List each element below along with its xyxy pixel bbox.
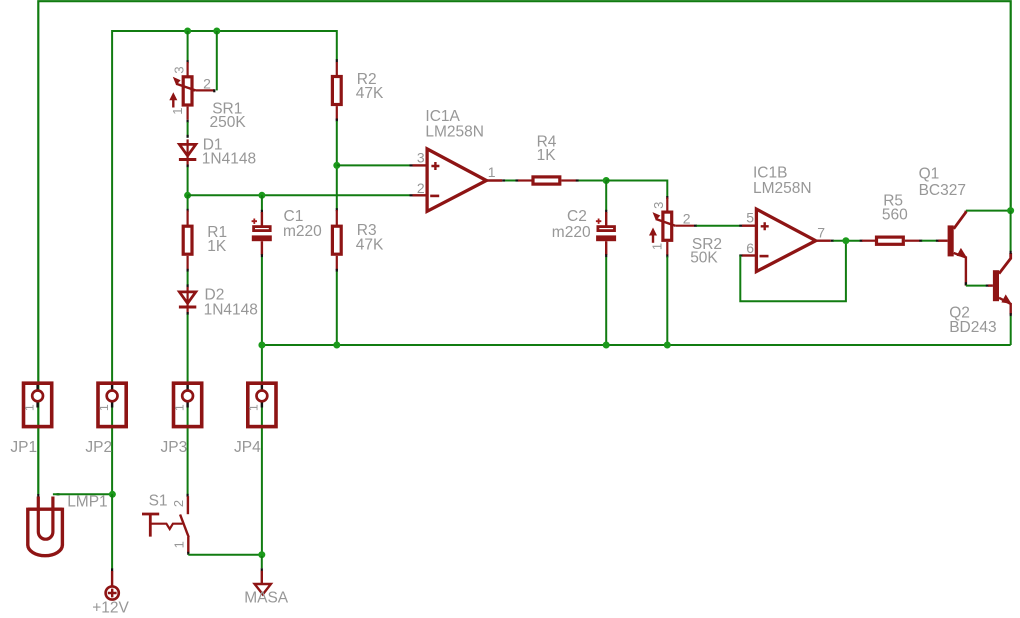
- Q2 base tick: [986, 285, 989, 287]
- wire S1 to MASA node: [188, 554, 261, 556]
- svg-text:560: 560: [882, 207, 908, 224]
- capacitor C1: [261, 212, 263, 226]
- Q2 collector tick: [1009, 251, 1011, 254]
- svg-text:1: 1: [172, 404, 186, 411]
- junction MASA node: [258, 551, 265, 558]
- junction on rail at SR1 pin2: [213, 28, 220, 35]
- svg-text:BD243: BD243: [949, 319, 996, 336]
- Q2 emitter tick: [1010, 313, 1012, 316]
- wire R5 to Q1 base: [922, 240, 937, 242]
- connector JP3: [186, 383, 188, 391]
- wire +V to Q2 collector: [1010, 211, 1012, 252]
- supply +12V symbol: [111, 571, 113, 587]
- IC1B pin6 tick: [739, 254, 742, 256]
- svg-text:1N4148: 1N4148: [204, 301, 258, 318]
- wire R1 to D2: [187, 272, 189, 286]
- svg-text:6: 6: [746, 240, 754, 256]
- IC1B pin5 tick: [739, 225, 742, 227]
- svg-text:LM258N: LM258N: [753, 180, 812, 197]
- transistor Q2: [988, 284, 993, 286]
- LMP1 right pin tick: [57, 493, 60, 495]
- svg-text:m220: m220: [283, 223, 322, 240]
- junction node at C1: [258, 192, 265, 199]
- MASA pin tick: [261, 568, 263, 571]
- junction bus at R3: [333, 342, 340, 349]
- +12V pin tick: [111, 568, 113, 571]
- svg-text:MASA: MASA: [244, 589, 289, 606]
- wire R2 to divider junction and R3: [336, 121, 338, 209]
- wire divider to op-amp pin3: [337, 164, 410, 166]
- svg-text:50K: 50K: [690, 249, 718, 266]
- svg-text:1N4148: 1N4148: [202, 151, 256, 168]
- resistor R1: [187, 211, 189, 226]
- svg-text:m220: m220: [552, 224, 591, 241]
- R2 bottom tick: [336, 119, 338, 122]
- wire SR1 pin2 up to rail: [216, 31, 218, 90]
- D1 top tick: [187, 135, 189, 138]
- svg-text:LM258N: LM258N: [425, 124, 484, 141]
- svg-text:JP1: JP1: [10, 439, 37, 456]
- svg-text:1K: 1K: [537, 147, 557, 164]
- transistor Q1: [938, 239, 947, 241]
- wire +V border net (left, top, right): [38, 1, 1010, 494]
- wire C2 to bus: [605, 257, 607, 345]
- svg-text:1: 1: [97, 404, 111, 411]
- svg-text:JP4: JP4: [234, 439, 261, 456]
- svg-text:2: 2: [683, 211, 691, 227]
- wire Q1 collector to +V: [966, 210, 1011, 212]
- wire R4 to node B: [579, 180, 607, 182]
- wire rail down to +12V: [111, 494, 113, 569]
- svg-text:LMP1: LMP1: [67, 493, 108, 510]
- R5 right tick: [919, 240, 922, 242]
- resistor R2: [336, 62, 338, 76]
- D1 bottom tick: [187, 165, 189, 168]
- switch S1: [187, 496, 189, 514]
- R4 right tick: [576, 179, 579, 181]
- wire IC1A out to R4: [505, 180, 516, 182]
- svg-text:47K: 47K: [356, 85, 384, 102]
- connector JP2: [111, 383, 113, 391]
- svg-text:IC1A: IC1A: [425, 108, 460, 125]
- C2 bottom tick: [605, 254, 607, 257]
- wire node A horizontal to op-amp pin2: [188, 194, 410, 196]
- svg-text:5: 5: [746, 210, 754, 226]
- IC1A pin2 tick: [410, 194, 413, 196]
- S1 pin2 tick: [187, 494, 189, 497]
- resistor R3: [336, 210, 338, 225]
- svg-text:2: 2: [171, 500, 186, 507]
- diode D2: [187, 287, 189, 314]
- R3 bottom tick: [336, 269, 338, 272]
- SR1 pin2 corner tick: [213, 89, 215, 92]
- R1 bottom tick: [187, 269, 189, 272]
- R2 top tick: [336, 59, 338, 62]
- wire C1 to bus and JP4 and MASA node: [261, 257, 263, 555]
- svg-text:7: 7: [817, 224, 825, 240]
- SR1 pin1 tick: [187, 120, 189, 123]
- wire node to C1: [261, 195, 263, 210]
- junction bus at C2: [603, 342, 610, 349]
- svg-text:1: 1: [650, 243, 665, 250]
- C1 top tick: [261, 210, 263, 213]
- op-amp IC1A: [413, 164, 428, 166]
- wire node B to SR2 pin3: [606, 181, 667, 197]
- R5 left tick: [860, 240, 863, 242]
- diode D1: [187, 139, 189, 166]
- wire ground bus: [262, 344, 1011, 346]
- svg-text:3: 3: [171, 66, 186, 73]
- S1 pin1 corner tick: [187, 552, 189, 555]
- wire stub into pin3 tick: [410, 164, 413, 166]
- C1 bottom tick: [261, 254, 263, 257]
- wire SR2 pin2 to IC1B pin5: [697, 225, 740, 227]
- junction bus at SR2: [664, 342, 671, 349]
- junction node B: [603, 177, 610, 184]
- svg-text:BC327: BC327: [919, 182, 966, 199]
- SR2 pin3 tick: [666, 196, 668, 199]
- C2 top tick: [605, 210, 607, 213]
- junction lamp/+12V: [109, 491, 116, 498]
- junction bus at C1/JP4: [258, 342, 265, 349]
- svg-text:1: 1: [22, 404, 36, 411]
- IC1B output tick: [831, 240, 834, 242]
- D2 bottom tick: [187, 312, 189, 315]
- R4 left tick: [516, 179, 519, 181]
- SR2 pin2 tick: [694, 225, 697, 227]
- wire node to R1: [187, 195, 189, 209]
- wire D2 to JP3 and S1: [187, 315, 189, 495]
- R3 top tick: [336, 208, 338, 211]
- svg-text:+12V: +12V: [92, 600, 129, 617]
- svg-text:S1: S1: [149, 493, 168, 510]
- potentiometer SR1: [187, 62, 189, 76]
- wire SR1 to D1: [187, 122, 189, 137]
- junction node at R1/D1: [184, 192, 191, 199]
- junction on rail at SR1 pin3: [184, 28, 191, 35]
- wire lamp to +12V rail: [53, 493, 113, 495]
- wire SR2 pin1 to bus: [666, 257, 668, 346]
- svg-text:JP3: JP3: [161, 439, 188, 456]
- Q1 base tick: [936, 240, 939, 242]
- SR1 pin3 tick: [187, 60, 189, 63]
- LMP1 left pin tick: [37, 494, 39, 497]
- op-amp IC1B: [742, 224, 756, 226]
- svg-text:1K: 1K: [207, 238, 227, 255]
- connector JP1: [36, 383, 38, 391]
- junction IC1B output: [842, 237, 849, 244]
- wire Q2 emitter to bus: [1010, 316, 1012, 345]
- svg-text:1: 1: [172, 541, 187, 548]
- IC1A output tick: [502, 179, 505, 181]
- wire Q1 emitter to Q2 base: [966, 285, 986, 287]
- junction Q1 collector at border: [1007, 207, 1014, 214]
- wire IC1B feedback loop: [740, 241, 846, 302]
- wire node B down to C2: [605, 181, 607, 211]
- svg-text:2: 2: [417, 180, 425, 196]
- resistor R5: [862, 240, 875, 242]
- ground MASA symbol: [261, 556, 263, 568]
- svg-text:1: 1: [247, 404, 261, 411]
- svg-text:IC1B: IC1B: [753, 164, 787, 181]
- capacitor C2: [605, 212, 607, 226]
- wire D1 to node: [187, 167, 189, 195]
- svg-text:JP2: JP2: [85, 439, 112, 456]
- wire R3 to ground bus: [336, 272, 338, 346]
- potentiometer SR2: [666, 198, 668, 211]
- svg-text:1: 1: [170, 108, 185, 115]
- wire SR1 pin3 drop: [187, 31, 189, 61]
- svg-text:3: 3: [417, 149, 425, 165]
- Q1 emitter tick: [965, 282, 967, 285]
- R1 top tick: [187, 209, 189, 212]
- svg-text:Q1: Q1: [919, 166, 940, 183]
- svg-text:47K: 47K: [356, 236, 384, 253]
- svg-text:2: 2: [203, 75, 211, 91]
- svg-text:C2: C2: [567, 208, 587, 225]
- svg-text:3: 3: [651, 202, 666, 209]
- wire rail y=31 with JP2 column top: [112, 31, 337, 494]
- D2 top tick: [187, 284, 189, 287]
- lamp LMP1: [38, 497, 53, 540]
- svg-text:1: 1: [488, 164, 496, 180]
- connector JP4: [261, 383, 263, 391]
- svg-text:250K: 250K: [210, 114, 247, 131]
- SR2 pin1 tick: [666, 255, 668, 258]
- junction divider node: [333, 162, 340, 169]
- resistor R4: [518, 179, 532, 181]
- wire IC1B output to junction: [833, 240, 860, 242]
